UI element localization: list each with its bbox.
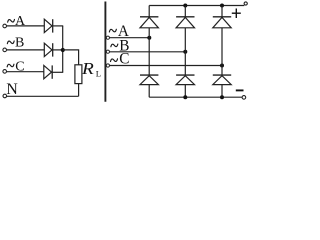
leg 1 middle stem [148,28,150,75]
junction dot bottom rail leg3 [220,95,224,99]
leg 3 upper stem [221,6,223,17]
- terminal circle [242,96,246,100]
label ~B left [7,41,14,44]
+ terminal circle [244,2,247,5]
terminal A (left circuit) [3,24,7,28]
leg 1 upper stem [148,6,150,17]
label ~A left [8,19,15,22]
diode VD4 (upper leg1) [140,17,158,28]
node a junction dot [147,36,151,40]
leg 3 lower stem [221,85,223,98]
junction dot top rail leg3 [220,4,224,8]
terminal A (right circuit) [106,36,109,39]
svg-text:L: L [96,68,101,78]
junction dot on bus [61,48,65,52]
wire phase A to leg 1 [110,37,150,39]
wire phase B to leg 2 [110,51,186,53]
leg 2 lower stem [184,85,186,98]
wire diode VD3 to bus [52,71,63,73]
wire phase C to diode VD3 [7,71,44,73]
plus sign [232,9,241,19]
diode VD2 [44,43,52,56]
terminal C (right circuit) [106,64,109,67]
diode VD5 (upper leg2) [176,17,194,28]
wire diode VD1 to bus [53,25,64,27]
diode VD6 (upper leg3) [213,17,231,28]
label ~A right [109,29,116,32]
node c junction dot [220,64,224,68]
terminal N [3,94,7,98]
diode VD8 (lower leg2) [176,75,194,85]
wire phase A to diode VD1 [7,25,45,27]
label ~B right [111,44,118,47]
label ~C left [7,64,14,67]
leg 2 upper stem [184,6,186,17]
label ~C right [111,59,118,62]
diode VD3 [44,65,52,78]
svg-text:R: R [81,59,95,78]
wire neutral N [7,95,79,97]
wire diode VD2 to bus [53,49,64,51]
terminal C (left circuit) [3,70,7,74]
leg 2 middle stem [184,28,186,75]
terminal B (right circuit) [106,50,109,53]
leg 3 middle stem [221,28,223,75]
diode VD1 [44,19,52,32]
junction dot bottom rail leg2 [183,95,187,99]
wire bus to load [63,50,79,65]
junction dot top rail leg2 [183,4,187,8]
wire phase C to leg 3 [110,65,223,67]
svg-text:B: B [15,36,24,51]
divider bar [104,2,106,102]
resistor RL [75,65,82,84]
diode VD7 (lower leg1) [140,75,158,85]
minus sign [236,89,244,91]
cathode bus wire (left circuit) [62,26,64,72]
node b junction dot [183,50,187,54]
wire load to N rail [78,84,80,97]
terminal B (left circuit) [3,48,7,52]
top rail (+ bus) [149,5,244,7]
leg 1 lower stem [148,85,150,98]
svg-text:C: C [119,51,129,68]
svg-text:A: A [15,14,26,29]
svg-text:C: C [15,59,24,74]
svg-text:N: N [6,81,18,98]
bottom rail (- bus) [149,96,242,98]
wire phase B to diode VD2 [7,49,45,51]
diode VD9 (lower leg3) [213,75,231,85]
